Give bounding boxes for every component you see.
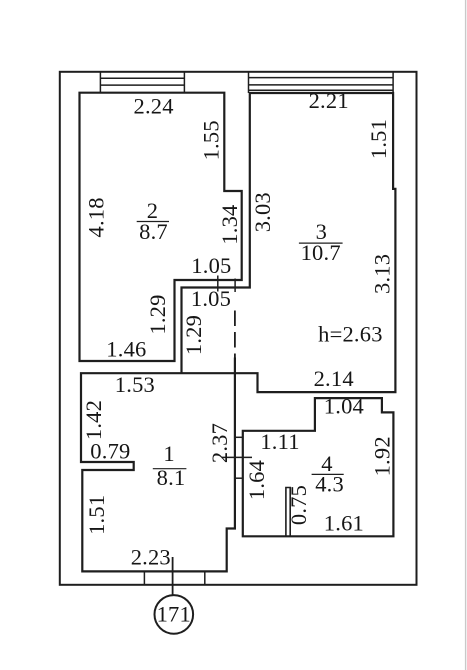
tick on duct lines left [217, 276, 219, 292]
room 1 outline [81, 373, 235, 571]
dim 1.34 vertical [217, 205, 242, 245]
svg-text:0.75: 0.75 [286, 485, 311, 525]
room 3 label underline [299, 242, 343, 244]
svg-text:1.05: 1.05 [191, 253, 231, 278]
scan edge artifact [465, 0, 467, 670]
svg-text:2.21: 2.21 [309, 88, 349, 113]
window W1 (room 2 top) [100, 72, 184, 93]
dim 1.64 vertical [244, 460, 269, 500]
svg-text:1.64: 1.64 [244, 460, 269, 500]
svg-text:171: 171 [157, 602, 191, 627]
room 1 label underline [153, 468, 187, 470]
svg-text:1.51: 1.51 [84, 495, 109, 535]
svg-text:3.13: 3.13 [370, 254, 395, 294]
dim 1.51 vertical room3 [366, 119, 391, 159]
dim 3.03 vertical [250, 192, 275, 232]
svg-text:1.51: 1.51 [366, 119, 391, 159]
svg-text:3.03: 3.03 [250, 192, 275, 232]
dim 1.42 vertical [81, 400, 106, 440]
svg-text:1.11: 1.11 [260, 429, 299, 454]
svg-text:1.05: 1.05 [191, 286, 231, 311]
svg-text:8.1: 8.1 [157, 465, 186, 490]
tick stub room1/room4 wall upper [235, 436, 243, 438]
dim 1.92 vertical [370, 436, 395, 476]
svg-text:1.34: 1.34 [217, 205, 242, 245]
svg-text:1.42: 1.42 [81, 400, 106, 440]
dim 1.55 vertical [199, 120, 224, 160]
svg-text:2.23: 2.23 [131, 545, 171, 570]
svg-text:1.29: 1.29 [145, 294, 170, 334]
apartment number circle [155, 595, 194, 634]
dim 2.37 vertical [207, 423, 232, 463]
svg-text:1.55: 1.55 [199, 120, 224, 160]
dim 3.13 vertical [370, 254, 395, 294]
svg-text:1.46: 1.46 [106, 336, 146, 361]
wall segment above room 1 right wall [234, 358, 236, 374]
dim 1.51 vertical room1 [84, 495, 109, 535]
outer boundary wall [60, 72, 417, 585]
svg-text:8.7: 8.7 [139, 219, 168, 244]
svg-text:0.79: 0.79 [90, 439, 130, 464]
svg-text:2.37: 2.37 [207, 423, 232, 463]
svg-text:2.14: 2.14 [314, 366, 354, 391]
svg-text:1.92: 1.92 [370, 436, 395, 476]
dashed boundary line [234, 311, 236, 358]
dim 4.18 vertical [84, 197, 109, 237]
tick on duct lines right [234, 279, 236, 293]
svg-text:2.24: 2.24 [134, 94, 174, 119]
tick bottom wall left [143, 571, 145, 584]
svg-text:4.18: 4.18 [84, 197, 109, 237]
dim 1.29 vertical right [181, 315, 206, 355]
svg-text:1: 1 [163, 441, 174, 466]
svg-text:1.53: 1.53 [115, 372, 155, 397]
room 3 outline with duct [182, 93, 396, 392]
window W2 (room 3 top) [249, 72, 394, 93]
tick stub room1/room4 wall lower [235, 477, 243, 479]
svg-text:h=2.63: h=2.63 [318, 322, 383, 347]
dim 1.29 vertical left [145, 294, 170, 334]
room 4 label underline [312, 473, 344, 475]
svg-text:1.61: 1.61 [324, 510, 364, 535]
svg-text:4.3: 4.3 [315, 472, 344, 497]
leader line to apartment number [172, 557, 174, 596]
long tick room1/room4 wall [222, 456, 252, 458]
svg-text:10.7: 10.7 [301, 240, 341, 265]
room 4 outline [243, 398, 394, 536]
dim 0.75 vertical [286, 485, 311, 525]
tick bottom wall right [204, 571, 206, 584]
svg-text:1.29: 1.29 [181, 315, 206, 355]
room 2 outline [80, 93, 242, 361]
partition stub in room 4 [286, 488, 290, 537]
room 2 label underline [137, 221, 169, 223]
svg-text:1.04: 1.04 [324, 394, 364, 419]
